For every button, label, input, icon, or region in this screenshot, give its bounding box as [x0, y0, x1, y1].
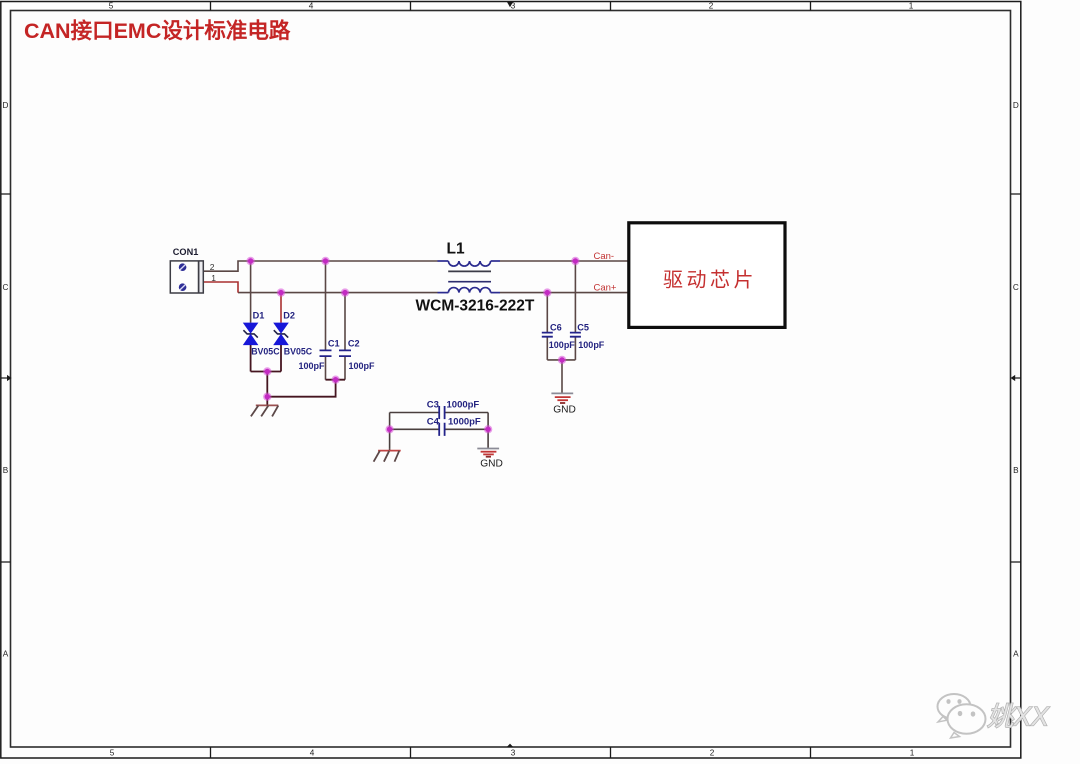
svg-text:2: 2 [710, 749, 715, 758]
svg-text:2: 2 [210, 262, 215, 272]
svg-text:C6: C6 [550, 323, 562, 333]
svg-text:D1: D1 [253, 310, 265, 320]
svg-text:100pF: 100pF [549, 340, 576, 350]
svg-text:C1: C1 [328, 339, 340, 349]
svg-text:驱动芯片: 驱动芯片 [663, 269, 757, 292]
svg-text:CON1: CON1 [173, 247, 199, 257]
svg-text:3: 3 [511, 749, 516, 758]
svg-text:GND: GND [553, 405, 576, 416]
svg-text:BV05C: BV05C [251, 347, 280, 357]
svg-text:C: C [1013, 283, 1019, 292]
svg-text:L1: L1 [447, 241, 465, 258]
svg-text:C3: C3 [427, 400, 439, 411]
svg-text:5: 5 [110, 749, 115, 758]
svg-text:1: 1 [910, 749, 915, 758]
svg-text:100pF: 100pF [349, 361, 376, 371]
svg-text:D: D [1013, 101, 1019, 110]
svg-text:C4: C4 [427, 417, 440, 428]
svg-text:3: 3 [511, 2, 516, 11]
svg-text:1000pF: 1000pF [448, 417, 481, 428]
svg-text:1000pF: 1000pF [447, 400, 480, 411]
svg-text:A: A [3, 650, 9, 659]
svg-text:B: B [3, 466, 9, 475]
svg-text:100pF: 100pF [299, 361, 326, 371]
svg-text:C5: C5 [577, 323, 589, 333]
svg-text:WCM-3216-222T: WCM-3216-222T [416, 298, 535, 315]
svg-text:100pF: 100pF [578, 340, 605, 350]
svg-text:姚XX: 姚XX [987, 702, 1050, 732]
svg-text:C2: C2 [348, 339, 360, 349]
svg-text:4: 4 [309, 2, 314, 11]
svg-text:2: 2 [709, 2, 714, 11]
svg-text:D2: D2 [283, 310, 295, 320]
svg-text:A: A [1013, 650, 1019, 659]
svg-text:5: 5 [109, 2, 114, 11]
svg-text:CAN接口EMC设计标准电路: CAN接口EMC设计标准电路 [24, 18, 291, 43]
svg-text:Can-: Can- [594, 251, 615, 262]
svg-text:BV05C: BV05C [284, 347, 313, 357]
svg-text:D: D [3, 101, 9, 110]
svg-text:C: C [3, 283, 9, 292]
svg-text:Can+: Can+ [594, 283, 617, 294]
svg-text:4: 4 [310, 749, 315, 758]
svg-text:1: 1 [211, 273, 216, 283]
svg-text:GND: GND [480, 459, 503, 470]
svg-text:1: 1 [909, 2, 914, 11]
svg-text:B: B [1013, 466, 1019, 475]
